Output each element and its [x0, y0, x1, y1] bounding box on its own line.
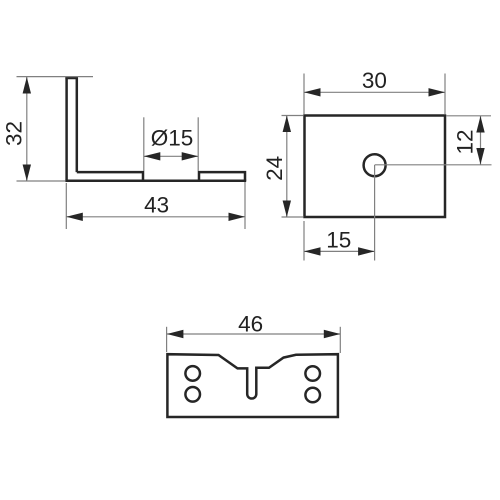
dimension line 43 [66, 216, 245, 218]
extension line bottom for 24 [282, 216, 304, 218]
arrow d15 left [144, 152, 161, 160]
L-bracket flange top right segment [199, 172, 245, 181]
L-bracket bottom edge [65, 180, 246, 183]
hole top-right [305, 366, 320, 381]
arrow 32 down [23, 165, 31, 182]
hole top-left [185, 366, 200, 381]
dimension line 24 [286, 116, 288, 218]
arrow 24 down [283, 201, 291, 218]
extension line top for 12 [446, 115, 491, 117]
dimension line 32 [26, 77, 28, 181]
svg-text:12: 12 [453, 129, 478, 154]
svg-text:32: 32 [2, 121, 27, 146]
extension line left for 30 [303, 74, 305, 115]
svg-text:46: 46 [238, 311, 263, 336]
arrow d15 right [182, 152, 199, 160]
arrow 43 right [229, 213, 246, 221]
extension line right for 30 [444, 74, 446, 115]
hole bottom-left [185, 387, 200, 402]
arrow 30 left [304, 88, 321, 96]
plate outline with V-notch slot [167, 354, 338, 417]
arrow 30 right [429, 88, 446, 96]
L-bracket top cap [65, 77, 78, 80]
arrow 24 up [283, 116, 291, 133]
arrow 46 right [324, 330, 341, 338]
svg-text:43: 43 [144, 193, 169, 218]
hole centerline vertical [374, 165, 376, 261]
extension line left for diameter 15 [143, 117, 145, 171]
hole centerline horizontal [375, 164, 492, 166]
dimension line 15 [304, 250, 375, 252]
dimension line 12 [480, 116, 482, 165]
svg-text:Ø15: Ø15 [151, 126, 194, 151]
svg-text:24: 24 [262, 156, 287, 181]
extension line top for 24 [282, 115, 304, 117]
hole circle [364, 154, 386, 176]
extension line bottom for 32 [17, 180, 66, 182]
svg-text:30: 30 [362, 68, 387, 93]
arrow 12 up [476, 116, 484, 133]
arrow 15 left [304, 247, 321, 255]
extension line top for 32 [17, 76, 94, 78]
arrow 12 down [476, 148, 484, 165]
hole bottom-right [305, 388, 320, 403]
extension line left for 43 [65, 183, 67, 229]
arrow 15 right [358, 247, 375, 255]
L-bracket outer left edge [65, 77, 68, 182]
arrow 46 left [167, 330, 184, 338]
extension line right for diameter 15 [197, 117, 199, 171]
dimension line 30 [304, 91, 445, 93]
arrow 43 left [66, 213, 83, 221]
L-bracket flange top left segment [77, 172, 143, 181]
L-bracket inner vertical edge [76, 78, 79, 172]
dimension line 46 [167, 333, 340, 335]
svg-text:15: 15 [326, 228, 351, 253]
extension line right for 43 [244, 182, 246, 229]
dimension line diameter 15 [144, 155, 198, 157]
arrow 32 up [23, 77, 31, 94]
extension line left for 15 [303, 221, 305, 261]
extension line left for 46 [166, 327, 168, 352]
plate rectangle [305, 116, 446, 218]
extension line right for 46 [339, 327, 341, 353]
